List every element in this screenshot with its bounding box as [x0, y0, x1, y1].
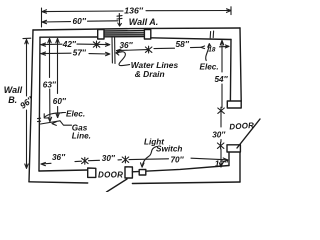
label DOOR bottom: [98, 170, 123, 179]
label 42in: [62, 40, 77, 49]
right wall upper segment outer line: [240, 28, 241, 101]
gas/electric ticks on wall B: [38, 118, 41, 121]
dimension line 136in: [42, 7, 231, 15]
dimension line 58in: [154, 46, 205, 49]
light switch box on bottom wall: [139, 169, 146, 175]
star mark between 30in and 12in: [217, 142, 224, 149]
label Water Lines: [131, 60, 179, 70]
jamb centerline star mark on 42in line: [93, 41, 100, 48]
wall B left outer line: [29, 30, 33, 182]
leader from Elec left label: [44, 113, 65, 119]
label Elec right: [200, 63, 219, 72]
label 60in top: [73, 16, 87, 26]
label and Drain: [135, 69, 165, 79]
dimension line 54in: [220, 41, 223, 108]
svg-text:Wall A.: Wall A.: [129, 17, 159, 27]
leader from Elec right label: [206, 44, 211, 61]
leader curve to Water Lines label: [117, 52, 129, 66]
bottom door right jamb: [125, 167, 132, 178]
label Gas: [72, 123, 88, 132]
right wall lower segment inner line: [228, 152, 230, 166]
right door leaf diagonal: [237, 119, 260, 148]
svg-text:Switch: Switch: [156, 145, 182, 154]
svg-text:Line.: Line.: [72, 132, 91, 141]
dimension line 30in right: [220, 114, 222, 142]
svg-text:& Drain: & Drain: [135, 69, 165, 79]
right door lower jamb cap: [227, 145, 240, 152]
water supply pipes: [112, 38, 115, 64]
svg-text:Wall: Wall: [4, 85, 23, 95]
svg-text:Elec.: Elec.: [66, 109, 85, 118]
wall A top outer line: [33, 28, 240, 30]
label 18in: [208, 47, 216, 54]
label Wall A: [129, 17, 159, 27]
bottom wall right segment inner line: [132, 166, 229, 172]
label Line: [72, 132, 91, 141]
bottom dimension line 30in: [89, 160, 122, 161]
label 96in rotated: [18, 94, 36, 111]
label 12in: [215, 159, 229, 168]
svg-text:60″: 60″: [53, 97, 67, 106]
dimension line 12in with down arrow: [219, 149, 222, 167]
svg-text:54″: 54″: [215, 75, 229, 84]
svg-text:18: 18: [208, 47, 216, 54]
bottom wall left segment outer line: [29, 182, 88, 183]
gas line stub and leader: [41, 121, 72, 126]
svg-text:30″: 30″: [212, 131, 226, 140]
window W1 right jamb: [144, 30, 150, 39]
svg-text:B.: B.: [8, 95, 17, 105]
svg-text:DOOR: DOOR: [98, 170, 123, 179]
svg-text:36″: 36″: [120, 41, 134, 50]
window W1 glazing lines: [103, 31, 145, 37]
svg-text:70″: 70″: [171, 155, 185, 164]
svg-text:57″: 57″: [73, 49, 87, 58]
window centerline mark: [117, 14, 122, 27]
wall A top inner line left segment: [40, 36, 98, 38]
dimension 136in extension line left: [41, 8, 43, 27]
window W1 left jamb: [98, 30, 104, 39]
leader from Light Switch label: [141, 147, 157, 168]
label 54in: [215, 75, 229, 84]
dimension 18in right arrow: [220, 45, 230, 48]
label Wall B: [4, 85, 23, 105]
wall B left inner line: [39, 37, 40, 171]
bottom door left jamb: [88, 168, 96, 177]
label Elec left: [66, 109, 85, 118]
label DOOR right: [229, 121, 254, 132]
dimension 96in line: [23, 38, 31, 168]
water pipes left arrow tick: [116, 51, 119, 55]
svg-text:12″: 12″: [215, 159, 229, 168]
svg-text:Elec.: Elec.: [200, 63, 219, 72]
label 30in right: [212, 131, 226, 140]
dimension line 57in: [41, 52, 110, 56]
label 36in bottom: [52, 153, 66, 162]
bottom dimension line 36in: [41, 161, 82, 166]
label 60in left: [53, 97, 67, 106]
bottom door leaf diagonal: [107, 179, 128, 192]
wall A top inner line right segment: [151, 38, 231, 40]
svg-text:58″: 58″: [176, 39, 190, 49]
dimension line 42in: [41, 43, 110, 46]
dimension 63in line: [48, 39, 52, 122]
label 30in bottom: [102, 154, 116, 163]
label 63in: [43, 81, 57, 90]
label Light: [144, 137, 164, 146]
svg-text:136″: 136″: [124, 6, 143, 16]
svg-text:60″: 60″: [73, 16, 87, 26]
svg-text:96″: 96″: [18, 94, 36, 111]
label 36in top: [120, 41, 134, 50]
electrical outlet ticks on wall A: [210, 31, 213, 38]
star mark between 54in and 30in: [218, 107, 225, 114]
bottom dimension line 70in: [129, 158, 228, 162]
svg-text:30″: 30″: [102, 154, 116, 163]
label 57in: [73, 49, 87, 58]
window centerline star mark on 36in line: [145, 46, 152, 53]
svg-text:DOOR: DOOR: [229, 121, 254, 132]
svg-text:63″: 63″: [43, 81, 57, 90]
label Switch: [156, 145, 182, 154]
dimension line 36in top: [117, 49, 148, 52]
label 70in: [171, 155, 185, 164]
right wall lower segment outer line: [239, 152, 241, 182]
dimension line 60in top: [42, 20, 118, 23]
star mark between 36in and 30in bottom: [82, 157, 89, 164]
right door upper jamb cap: [227, 101, 241, 108]
right wall upper segment inner line: [229, 40, 232, 102]
label 58in: [176, 39, 190, 49]
star mark between 30in and 70in bottom: [122, 156, 129, 163]
dimension 60in left line: [56, 39, 60, 118]
bottom wall left segment inner line: [39, 170, 88, 171]
bottom wall right segment outer line: [132, 182, 240, 184]
svg-text:36″: 36″: [52, 153, 66, 162]
label 136in: [124, 6, 143, 16]
